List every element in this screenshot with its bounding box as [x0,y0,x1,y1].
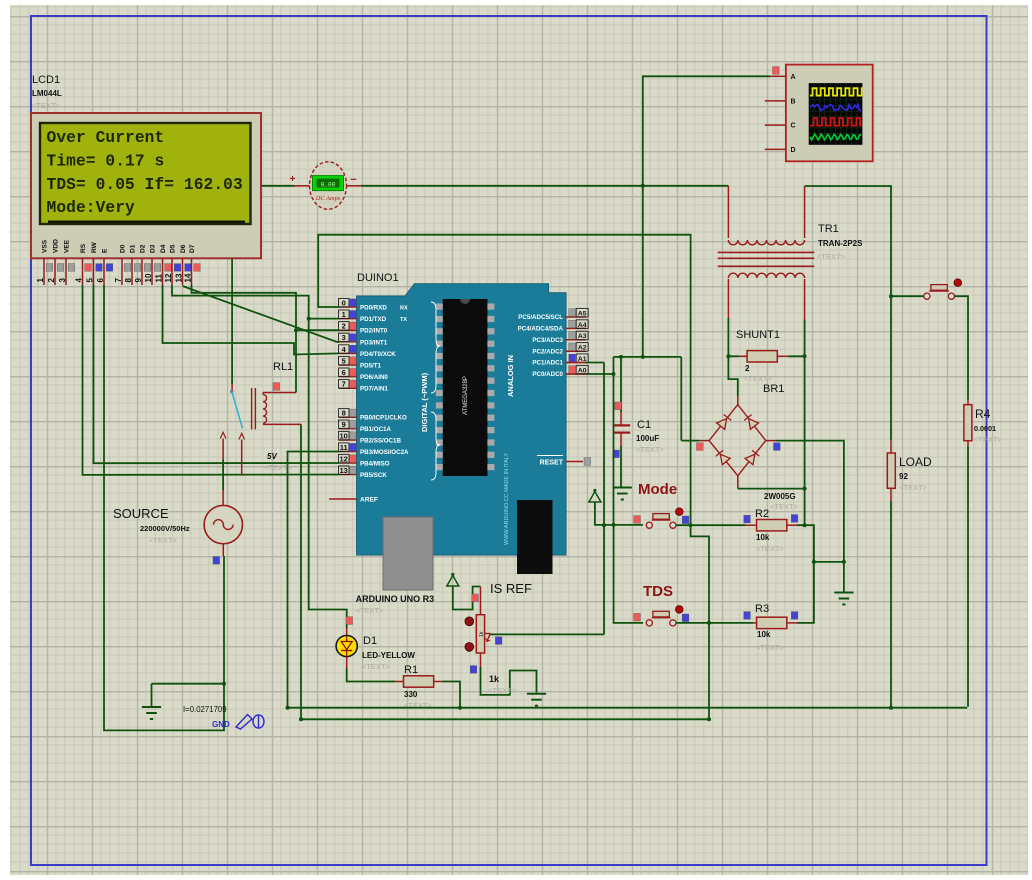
resistor R1 [395,681,404,683]
svg-text:SHUNT1: SHUNT1 [736,329,780,341]
wire: bottom bus (GND rail) [288,707,968,709]
svg-text:TRAN-2P2S: TRAN-2P2S [818,239,863,248]
ground (right of R2) [834,592,853,594]
svg-text:<TEXT>: <TEXT> [744,374,773,383]
svg-text:12: 12 [164,273,173,282]
wire: LCD RS (pin4) to arduino pin13 [83,285,340,475]
svg-text:1k: 1k [479,631,485,637]
TR1 secondary leads [727,279,729,318]
C1 state squares [615,402,622,410]
svg-text:A0: A0 [578,367,587,374]
wire: TR1 primary right to top-right area [805,186,891,440]
svg-text:R4: R4 [975,407,991,421]
svg-text:8: 8 [124,278,133,283]
TR1 primary coil [728,240,804,245]
scope trace A (yellow square) [810,88,867,95]
svg-text:LED-YELLOW: LED-YELLOW [362,651,415,660]
svg-text:Over Current: Over Current [47,129,165,147]
svg-text:PC5/ADC5/SCL: PC5/ADC5/SCL [518,314,563,321]
wire: LCD to ammeter to TR1 primary (220kV line) [261,185,294,187]
terminal arrow near power jack [589,492,601,503]
svg-text:AREF: AREF [360,497,378,504]
svg-text:Time= 0.17 s: Time= 0.17 s [47,152,165,170]
wire: TR1 secondary left down to shunt/bridge [728,318,737,396]
svg-text:TR1: TR1 [818,223,839,235]
LCD LM044L body [31,113,261,258]
resistor LOAD [890,440,892,453]
svg-text:PB0/ICP1/CLKO: PB0/ICP1/CLKO [360,415,407,422]
svg-text:TDS: TDS [643,583,673,600]
svg-text:RL1: RL1 [273,361,293,373]
svg-text:PC2/ADC2: PC2/ADC2 [532,348,563,355]
svg-text:PC4/ADC4/SDA: PC4/ADC4/SDA [518,326,564,333]
svg-text:VEE: VEE [64,239,71,253]
wire: LCD D7 (pin14) to arduino pin2 / relay coil [192,285,297,393]
wire: LCD D4 (pin11) to arduino pin4 [163,285,340,355]
RL1 state square [273,383,280,391]
Arduino board outline [357,284,566,555]
RL1 contacts [220,432,226,438]
wire: to button left pin [891,295,924,297]
RL1 pole wire from LCD bottom [231,259,233,385]
wire: A1 down to pot wiper [586,362,604,364]
svg-text:D5: D5 [170,244,177,253]
LCD screen [40,123,251,224]
svg-text:R1: R1 [404,664,418,676]
svg-text:7: 7 [342,380,346,389]
svg-text:D7: D7 [189,244,196,253]
svg-text:LM044L: LM044L [32,89,62,98]
svg-text:VSS: VSS [42,239,49,253]
svg-text:<TEXT>: <TEXT> [770,502,799,511]
scope trace C (red square) [810,118,862,125]
svg-text:2: 2 [745,364,750,373]
svg-text:PB1/OC1A: PB1/OC1A [360,426,391,433]
AC source SOURCE [222,459,224,490]
svg-text:ANALOG IN: ANALOG IN [506,355,515,397]
svg-text:13: 13 [175,273,184,282]
Arduino USB connector [383,517,433,590]
resistor R4 [967,400,969,405]
svg-text:<TEXT>: <TEXT> [756,643,785,652]
wire: source bottom to ground [222,682,226,686]
ground (pot net) [527,693,546,695]
svg-text:BR1: BR1 [763,383,784,395]
svg-text:TX: TX [400,317,407,323]
wire: button right to R4 [955,296,969,399]
wire: relay coil bottom to gnd bus [300,424,302,719]
svg-text:12: 12 [340,454,348,463]
svg-text:5: 5 [342,356,346,365]
svg-text:DIGITAL (~PWM): DIGITAL (~PWM) [420,372,429,432]
BR1 diode top-right [749,419,759,430]
svg-text:<TEXT>: <TEXT> [32,101,61,110]
svg-text:4: 4 [75,278,84,283]
AREF pin [329,498,357,500]
Arduino power jack [517,500,553,574]
Arduino digital pins (0-13) [339,306,357,308]
svg-text:PB2/SS/OC1B: PB2/SS/OC1B [360,438,401,445]
svg-text:PD5/T1: PD5/T1 [360,363,382,370]
svg-text:E: E [102,248,109,253]
capacitor C1 [620,357,622,412]
BR1 left lead to DC net [699,440,709,442]
wire: A0 jog and down to Mode button [613,357,615,525]
BR1 diode bottom-left [720,454,730,465]
svg-text:RS: RS [80,243,87,253]
svg-text:2: 2 [342,322,346,331]
svg-text:R2: R2 [755,508,769,520]
ground (bottom left) [151,684,153,707]
TR1 core [718,251,815,253]
svg-text:10: 10 [144,273,153,282]
svg-text:WWW.ARDUINO.CC MADE IN ITALY: WWW.ARDUINO.CC MADE IN ITALY [504,453,510,545]
wire: LCD D5 (pin12) to arduino pin1 and LED D1 [172,285,347,628]
svg-text:A4: A4 [578,322,587,329]
svg-text:10k: 10k [757,630,771,639]
scope trace D (green sine) [810,134,861,140]
svg-text:<TEXT>: <TEXT> [899,483,928,492]
svg-text:PB5/SCK: PB5/SCK [360,472,387,479]
RL1 coil [263,395,267,424]
svg-text:330: 330 [404,690,418,699]
LED D1 (yellow) [346,617,353,625]
svg-text:1: 1 [36,278,45,283]
svg-text:A5: A5 [578,310,587,317]
wire: Mode right to R2 [676,524,746,526]
pot body [476,615,484,653]
svg-text:8: 8 [342,409,346,418]
svg-text:7: 7 [114,278,123,283]
svg-text:A2: A2 [578,345,587,352]
svg-text:D1: D1 [130,244,137,253]
svg-text:ARDUINO UNO R3: ARDUINO UNO R3 [356,594,435,604]
scope trace B (blue noisy) [810,105,861,111]
BR1 diode top-left [717,419,727,430]
BR1 bottom lead [737,476,739,489]
wire: Mode right branch down to bottom bus [691,525,709,719]
svg-text:<TEXT>: <TEXT> [356,606,385,615]
svg-text:D6: D6 [180,244,187,253]
svg-text:PD2/INT0: PD2/INT0 [360,328,388,335]
svg-text:Mode: Mode [638,481,677,498]
svg-text:3: 3 [342,333,346,342]
svg-text:C1: C1 [637,419,651,431]
wire: arduino pin11 to bottom bus [288,452,340,708]
svg-text:PC3/ADC3: PC3/ADC3 [532,337,563,344]
svg-text:11: 11 [155,273,164,282]
svg-text:0.00: 0.00 [321,182,336,189]
svg-text:DUINO1: DUINO1 [357,272,399,284]
BR1 diode bottom-right [745,454,755,464]
svg-text:<TEXT>: <TEXT> [756,544,785,553]
ATMEGA328 DIP chip [443,299,488,476]
LCD 4th row cursor bar [48,221,245,224]
wire: LCD RW (pin5) to arduino pin12 [94,285,340,463]
wire: LED cathode to R1 [346,657,348,668]
svg-text:0.0001: 0.0001 [974,424,996,433]
svg-text:D2: D2 [140,244,147,253]
svg-text:PD6/AIN0: PD6/AIN0 [360,374,388,381]
wire: bottom bus 2 [301,718,709,720]
svg-text:13: 13 [340,466,348,475]
wire: Mode left to TDS left connector [614,525,643,623]
svg-text:2: 2 [47,278,56,283]
LCD pin stubs, state squares and numbers [43,258,45,285]
svg-text:<TEXT>: <TEXT> [817,252,846,261]
BR1 right lead [766,440,776,442]
svg-text:PC0/ADC0: PC0/ADC0 [532,371,563,378]
svg-text:<TEXT>: <TEXT> [264,463,293,472]
svg-text:10: 10 [340,431,348,440]
wire: oscilloscope channel A probe [643,76,770,357]
ammeter DC Amps [310,162,347,210]
svg-text:<TEXT>: <TEXT> [974,435,1003,444]
svg-text:D1: D1 [363,635,377,647]
Arduino analog pins A5-A0 [566,316,586,318]
svg-text:GND: GND [212,720,230,729]
svg-text:<TEXT>: <TEXT> [404,701,433,710]
svg-text:B: B [791,99,796,106]
svg-text:LOAD: LOAD [899,455,932,469]
svg-text:6: 6 [96,278,105,283]
BR1 state squares [697,443,704,451]
wire: pin0 route over board to Mode/R2 column [318,235,690,526]
svg-text:DC Amps: DC Amps [315,195,341,202]
svg-text:<TEXT>: <TEXT> [149,536,178,545]
svg-text:D0: D0 [120,244,127,253]
svg-text:D4: D4 [160,244,167,253]
wire: LCD D6 (pin13) diagonal to arduino pin3 [183,286,340,342]
svg-text:+: + [290,174,296,185]
svg-text:TDS= 0.05 If= 162.03: TDS= 0.05 If= 162.03 [47,176,243,194]
svg-text:<TEXT>: <TEXT> [362,662,391,671]
TR1 secondary coil [728,273,804,278]
svg-text:1k: 1k [489,674,500,684]
svg-text:RESET: RESET [540,460,564,467]
svg-text:9: 9 [342,420,346,429]
svg-text:IS REF: IS REF [490,581,532,596]
svg-text:14: 14 [184,273,193,282]
node: scope A indicator square [773,67,780,75]
svg-text:C: C [791,123,796,130]
svg-text:3: 3 [58,278,67,283]
svg-text:6: 6 [342,368,346,377]
svg-text:220000V/50Hz: 220000V/50Hz [140,524,190,533]
svg-text:11: 11 [340,443,348,452]
svg-text:PB3/MOSI/OC2A: PB3/MOSI/OC2A [360,449,409,456]
svg-text:D: D [791,147,796,154]
wire: R2 right to R3 right and ground branch [797,525,814,623]
svg-text:<TEXT>: <TEXT> [488,686,517,695]
svg-text:5V: 5V [267,452,277,461]
pot wiper [485,633,491,635]
svg-text:PC1/ADC1: PC1/ADC1 [532,360,563,367]
svg-text:VDD: VDD [53,239,60,253]
svg-text:PD3/INT1: PD3/INT1 [360,339,388,346]
wire: arrow to Mode left pin [595,502,643,525]
svg-text:9: 9 [134,278,143,283]
pot bottom lead [480,653,482,667]
svg-text:5: 5 [86,278,95,283]
TR1 primary right lead [804,186,806,238]
probe cursor icon [236,715,252,730]
svg-text:Mode:Very: Mode:Very [47,199,136,217]
svg-text:100uF: 100uF [636,434,659,443]
svg-text:A: A [791,74,796,81]
svg-text:PD4/T0/XCK: PD4/T0/XCK [360,351,396,358]
terminal arrow near pot [447,576,459,587]
svg-text:PD1/TXD: PD1/TXD [360,316,387,323]
wire: TR1 secondary right down to R2 right [804,320,806,525]
svg-text:10k: 10k [756,533,770,542]
oscilloscope [786,65,873,162]
svg-text:92: 92 [899,472,908,481]
svg-text:RX: RX [400,306,408,312]
svg-text:A3: A3 [578,333,587,340]
svg-text:−: − [350,174,356,186]
RL1 core [251,388,253,429]
svg-text:R3: R3 [755,603,769,615]
wire: LCD E (pin6) down to source/ground net [104,285,224,730]
svg-text:PB4/MISO: PB4/MISO [360,461,390,468]
svg-text:<TEXT>: <TEXT> [636,445,665,454]
svg-text:SOURCE: SOURCE [113,506,169,521]
wire: DC measure net (A0/C1/bridge left) [614,356,682,358]
svg-text:D3: D3 [150,244,157,253]
svg-text:PD0/RXD: PD0/RXD [360,305,387,312]
svg-text:PD7/AIN1: PD7/AIN1 [360,386,388,393]
svg-text:2W005G: 2W005G [764,492,796,501]
RL1 switch blade [230,390,234,394]
svg-text:1: 1 [342,310,346,319]
svg-text:ATMEGA328P: ATMEGA328P [463,376,469,415]
svg-text:0: 0 [342,298,346,307]
svg-text:LCD1: LCD1 [32,74,60,86]
RL1 coil terminals [263,392,296,394]
svg-text:RW: RW [91,241,98,253]
TR1 primary left lead [727,186,729,238]
ground (below C1) [613,487,632,489]
wire: TDS right to R3 [676,622,753,624]
pot adjust buttons [465,617,474,626]
svg-text:I=0.0271709: I=0.0271709 [183,705,227,714]
